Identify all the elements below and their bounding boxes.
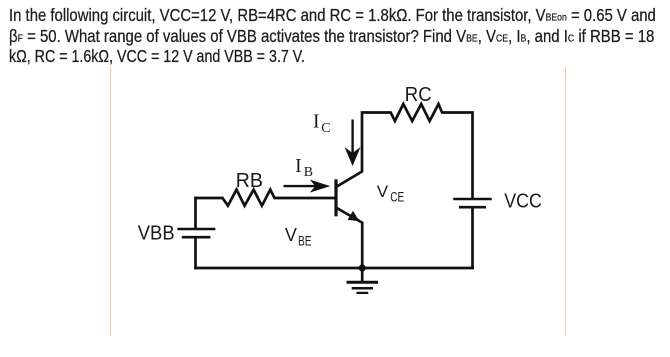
svg-text:I: I [295,156,302,177]
svg-text:VBB: VBB [138,222,175,244]
svg-text:VCC: VCC [504,190,542,213]
svg-text:V: V [377,182,389,201]
svg-text:CE: CE [390,189,404,204]
svg-text:I: I [313,112,320,133]
svg-text:C: C [321,120,330,135]
svg-text:BE: BE [298,234,312,249]
svg-text:B: B [304,164,313,179]
svg-text:RC: RC [405,84,432,106]
svg-text:RB: RB [236,170,263,192]
svg-text:V: V [285,225,297,245]
